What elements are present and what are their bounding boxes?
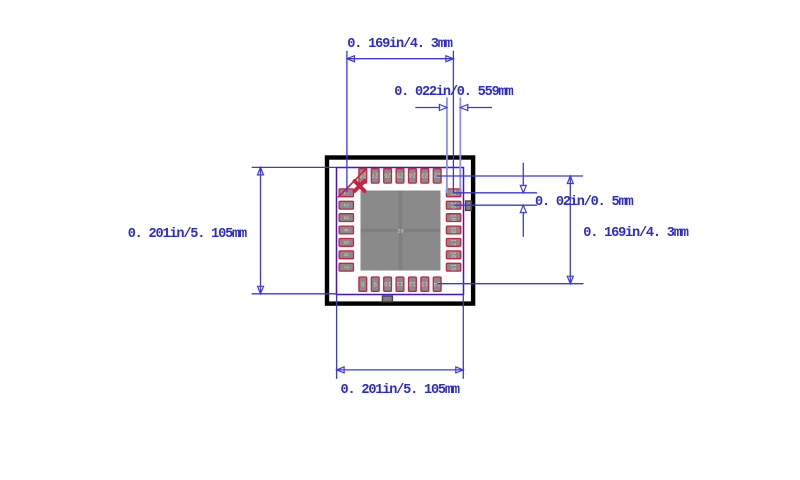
svg-text:0. 169in/4. 3mm: 0. 169in/4. 3mm xyxy=(347,37,452,52)
dim left 5.105mm extension line top xyxy=(252,166,337,168)
dim pitch leader below xyxy=(522,212,524,237)
svg-text:29: 29 xyxy=(397,228,404,235)
dim top 4.3mm arrow right xyxy=(446,56,454,62)
dim 0.559mm leader left xyxy=(415,107,440,109)
dim left 5.105mm arrow down xyxy=(258,286,264,294)
svg-text:4: 4 xyxy=(342,228,349,232)
dim left 5.105mm arrow up xyxy=(258,167,264,175)
dim pitch extension line pin21 xyxy=(454,192,537,194)
dim top 4.3mm dimension line xyxy=(347,58,454,60)
dim top 4.3mm extension line left xyxy=(346,51,348,193)
dim bottom 5.105mm extension line left xyxy=(336,295,338,379)
svg-text:0. 02in/0. 5mm: 0. 02in/0. 5mm xyxy=(535,195,633,210)
pin 18 pad xyxy=(446,226,460,234)
pin 3 pad xyxy=(339,214,353,222)
svg-text:6: 6 xyxy=(342,253,349,257)
dim pitch extension line pin20 xyxy=(454,204,537,206)
thermal pad split line vertical xyxy=(399,191,403,271)
pin 23 pad xyxy=(421,169,429,183)
pin 26 pad xyxy=(384,169,392,183)
dim right 4.3mm arrow down xyxy=(567,276,573,284)
pin 4 pad xyxy=(339,226,353,234)
svg-text:15: 15 xyxy=(449,264,456,272)
dim top 4.3mm extension line right xyxy=(452,51,454,194)
svg-text:12: 12 xyxy=(408,280,416,287)
pin 1 pad xyxy=(339,189,353,197)
pin 22 pad xyxy=(433,169,441,183)
svg-text:13: 13 xyxy=(421,280,429,287)
svg-text:26: 26 xyxy=(384,172,392,179)
svg-text:0. 169in/4. 3mm: 0. 169in/4. 3mm xyxy=(583,226,688,241)
dim 0.559mm extension line right xyxy=(459,98,461,194)
pin 13 pad xyxy=(421,277,429,291)
pin 19 pad xyxy=(446,214,460,222)
pin 15 pad xyxy=(446,263,460,271)
dim bottom 5.105mm extension line right xyxy=(462,295,464,379)
svg-text:0. 201in/5. 105mm: 0. 201in/5. 105mm xyxy=(128,227,247,242)
thermal pad split line horizontal xyxy=(361,229,441,233)
pin 9 pad xyxy=(371,277,379,291)
pin 1 marker diagonal xyxy=(338,168,367,197)
svg-text:0. 022in/0. 559mm: 0. 022in/0. 559mm xyxy=(394,85,513,100)
pin 5 pad xyxy=(339,239,353,247)
pin 25 pad xyxy=(396,169,404,183)
pin 7 pad xyxy=(339,263,353,271)
pin 14 pad xyxy=(433,277,441,291)
dim left 5.105mm extension line bottom xyxy=(252,293,337,295)
svg-text:27: 27 xyxy=(371,172,379,179)
side marker pad right xyxy=(466,201,472,210)
svg-text:0. 201in/5. 105mm: 0. 201in/5. 105mm xyxy=(341,383,460,398)
svg-text:22: 22 xyxy=(433,172,441,179)
pin 11 pad xyxy=(396,277,404,291)
svg-text:25: 25 xyxy=(396,172,404,179)
dim top 4.3mm arrow left xyxy=(347,56,355,62)
dim 0.559mm arrow right xyxy=(460,105,468,111)
svg-text:5: 5 xyxy=(342,241,349,245)
pin 24 pad xyxy=(409,169,417,183)
svg-text:7: 7 xyxy=(342,265,349,269)
pin 10 pad xyxy=(384,277,392,291)
dim right 4.3mm dimension line xyxy=(569,176,571,284)
svg-text:10: 10 xyxy=(384,280,392,287)
pin 6 pad xyxy=(339,251,353,259)
dim pitch arrow down xyxy=(520,185,526,193)
svg-text:9: 9 xyxy=(373,280,377,287)
svg-text:8: 8 xyxy=(361,280,365,287)
pin 21 pad xyxy=(446,189,460,197)
package body outline 5.105mm xyxy=(337,168,464,295)
svg-text:3: 3 xyxy=(342,216,349,220)
pin 1 marker X xyxy=(355,181,365,191)
side marker pad bottom xyxy=(382,296,392,302)
pin 28 pad xyxy=(359,169,367,183)
thermal pad 29 xyxy=(361,191,441,271)
dim bottom 5.105mm dimension line xyxy=(337,369,464,371)
svg-text:18: 18 xyxy=(449,226,456,234)
svg-text:24: 24 xyxy=(408,172,416,179)
pin 27 pad xyxy=(371,169,379,183)
pin 17 pad xyxy=(446,239,460,247)
dim pitch leader above xyxy=(522,163,524,187)
svg-text:23: 23 xyxy=(421,172,429,179)
pin 16 pad xyxy=(446,251,460,259)
dim 0.559mm leader right xyxy=(467,107,492,109)
svg-text:11: 11 xyxy=(396,280,404,287)
dim right 4.3mm extension line bottom xyxy=(437,283,583,285)
pin 8 pad xyxy=(359,277,367,291)
dim left 5.105mm dimension line xyxy=(260,167,262,293)
dim 0.559mm extension line left xyxy=(446,98,448,194)
dim right 4.3mm extension line top xyxy=(437,175,583,177)
dim bottom 5.105mm arrow left xyxy=(337,367,345,373)
svg-text:16: 16 xyxy=(449,251,456,259)
dim 0.559mm arrow left xyxy=(439,105,447,111)
svg-text:2: 2 xyxy=(342,203,349,207)
pin 12 pad xyxy=(409,277,417,291)
package courtyard outline xyxy=(327,158,473,304)
dim pitch arrow up xyxy=(520,205,526,213)
pin 2 pad xyxy=(339,201,353,209)
svg-text:19: 19 xyxy=(449,214,456,222)
pin 20 pad xyxy=(446,201,460,209)
dim bottom 5.105mm arrow right xyxy=(456,367,464,373)
svg-text:17: 17 xyxy=(449,239,456,247)
dim right 4.3mm arrow up xyxy=(567,176,573,184)
